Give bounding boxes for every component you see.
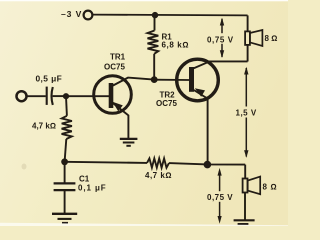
- wire top rail: [92, 14, 247, 17]
- svg-text:4,7 kΩ: 4,7 kΩ: [145, 171, 172, 180]
- page edge bottom: [0, 223, 288, 226]
- supply terminal: [84, 11, 93, 20]
- svg-text:0,75 V: 0,75 V: [207, 193, 233, 202]
- TR1 label: [104, 53, 126, 72]
- wire TR1 emitter: [113, 103, 129, 139]
- svg-text:8 Ω: 8 Ω: [263, 183, 278, 192]
- node input junction: [63, 93, 69, 99]
- capacitor 0,5uF: [47, 87, 53, 105]
- svg-text:OC75: OC75: [156, 99, 177, 108]
- measure arrow 0,75V top: [207, 18, 234, 58]
- svg-text:C1: C1: [79, 174, 90, 183]
- svg-text:OC75: OC75: [104, 62, 125, 71]
- wire TR2 base lead: [154, 79, 189, 81]
- paper smudge: [22, 164, 27, 170]
- wire speaker1 top lead: [247, 15, 249, 31]
- svg-text:–3 V: –3 V: [61, 9, 82, 19]
- resistor R1: [148, 31, 159, 54]
- ground C1: [52, 214, 77, 223]
- input terminal: [17, 91, 27, 101]
- svg-text:4,7 kΩ: 4,7 kΩ: [32, 121, 56, 130]
- page edge top: [0, 0, 288, 1]
- TR2 emitter arrow: [195, 88, 205, 97]
- transistor TR2: [177, 59, 219, 101]
- svg-text:6,8 kΩ: 6,8 kΩ: [162, 41, 190, 50]
- wire C1 bottom lead: [64, 190, 66, 213]
- ground TR1 emitter: [120, 139, 138, 146]
- speaker LS1: [245, 30, 262, 46]
- wire C1 top lead: [64, 162, 66, 183]
- node base junction: [151, 76, 158, 83]
- measure arrow 0,75V bottom: [207, 168, 233, 224]
- transistor TR1: [94, 76, 132, 114]
- ground speaker2: [234, 220, 255, 224]
- wire TR2 emitter: [194, 90, 208, 164]
- svg-text:0,5 μF: 0,5 μF: [36, 74, 63, 84]
- svg-text:0,1 μF: 0,1 μF: [78, 184, 107, 193]
- resistor 4,7k feedback: [147, 158, 169, 167]
- wire speaker2 top lead: [244, 165, 246, 179]
- svg-text:0,75 V: 0,75 V: [207, 35, 234, 44]
- C1 label: [78, 174, 107, 192]
- wire bias resistor bottom lead: [65, 139, 67, 162]
- node top junction: [152, 12, 158, 18]
- wire TR1 collector: [113, 78, 154, 86]
- wire input lead: [27, 95, 46, 97]
- capacitor C1: [54, 183, 76, 190]
- node emitter junction: [204, 161, 212, 169]
- wire TR2 collector: [194, 61, 248, 68]
- wire bias resistor top lead: [65, 96, 68, 116]
- wire speaker2 bottom lead: [244, 193, 246, 220]
- svg-text:8 Ω: 8 Ω: [265, 34, 278, 43]
- measure arrow 1,5V: [236, 67, 257, 158]
- wire bottom rail right: [169, 163, 245, 165]
- TR2 label: [156, 90, 177, 107]
- speaker LS2: [243, 177, 261, 195]
- wire speaker1 bottom lead: [247, 45, 249, 62]
- wire TR1 base lead: [66, 95, 109, 97]
- R1 value label: [162, 32, 190, 49]
- wire bottom rail left: [65, 162, 147, 163]
- TR1 emitter arrow: [113, 102, 123, 111]
- wire R1 top lead: [154, 15, 156, 31]
- svg-text:TR1: TR1: [110, 53, 126, 62]
- node left bottom junction: [61, 158, 68, 165]
- svg-text:1,5 V: 1,5 V: [236, 108, 257, 117]
- wire R1 bottom lead: [153, 54, 155, 80]
- wire cap to junction: [53, 95, 64, 97]
- resistor 4,7k vertical: [62, 116, 72, 139]
